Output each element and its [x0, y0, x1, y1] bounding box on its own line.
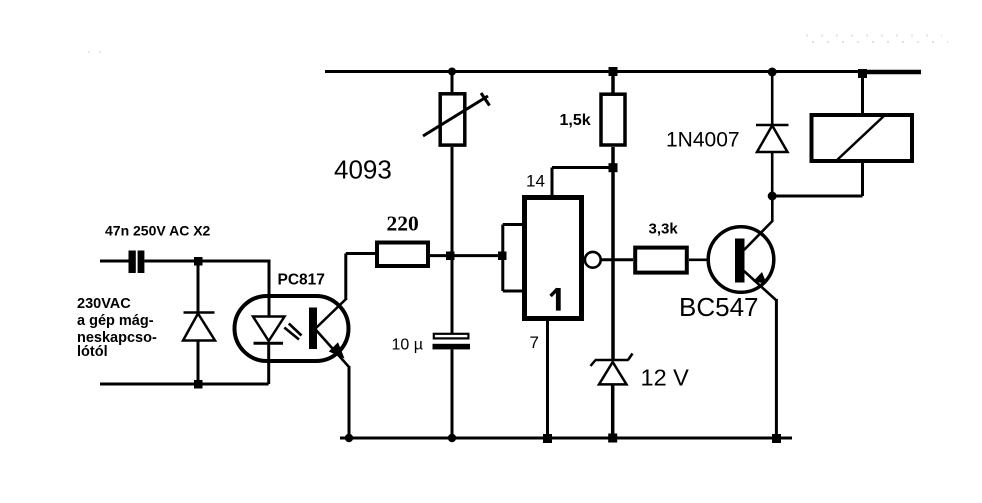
- phototransistor inside optocoupler: [309, 299, 349, 367]
- wire gate output to 3,3k: [601, 258, 633, 261]
- node junction pin14 supply: [609, 163, 618, 172]
- svg-text:3,3k: 3,3k: [649, 221, 679, 238]
- svg-text:lótól: lótól: [77, 344, 108, 360]
- node junction bottom rail / emitter BC547: [772, 434, 781, 443]
- node junction timing node: [446, 252, 455, 261]
- NAND gate U1 4093: [525, 198, 582, 319]
- diode D1: [183, 261, 215, 384]
- svg-text:14: 14: [526, 172, 545, 191]
- node junction top rail / relay: [858, 69, 867, 78]
- wire R3 to base: [689, 258, 735, 261]
- wire opto emitter to ground rail: [348, 366, 351, 438]
- wire emitter to ground rail: [775, 299, 778, 438]
- zener diode ZD1 12V: [591, 354, 633, 439]
- svg-text:PC817: PC817: [278, 272, 325, 289]
- svg-text:1N4007: 1N4007: [666, 129, 740, 152]
- svg-text:7: 7: [530, 333, 539, 352]
- relay K1: [772, 74, 912, 197]
- node junction D1 bottom: [194, 380, 203, 389]
- node junction top rail / 1,5k: [609, 67, 618, 76]
- wire input bracket: [503, 225, 523, 292]
- node junction D1 top: [194, 257, 203, 266]
- wire trimmer to timing node: [451, 147, 454, 333]
- resistor R2 1,5k: [601, 72, 625, 146]
- svg-text:47n 250V AC X2: 47n 250V AC X2: [105, 223, 211, 239]
- optocoupler U2 PC817 body: [235, 296, 349, 361]
- resistor R1 220: [377, 243, 428, 267]
- light coupling arrows: [284, 324, 301, 340]
- transistor Q1 BC547: [708, 221, 776, 301]
- label gate function 1: [551, 288, 561, 311]
- resistor R3 3,3k: [635, 248, 687, 273]
- svg-text:230VAC: 230VAC: [77, 296, 131, 312]
- svg-text:BC547: BC547: [679, 292, 759, 322]
- wire top supply rail: [325, 70, 921, 74]
- svg-text:10 µ: 10 µ: [392, 337, 423, 354]
- label 230VAC source text: [77, 296, 157, 360]
- trimmer resistor P1: [423, 72, 490, 146]
- wire bottom ground rail: [340, 437, 792, 440]
- node junction bottom rail / zener: [608, 434, 617, 443]
- wire R1 to gate inputs: [430, 254, 503, 257]
- diode D2 1N4007: [756, 72, 789, 197]
- node junction input bracket: [498, 252, 507, 261]
- wire collector to relay node: [771, 196, 774, 222]
- node junction bottom rail / opto emitter: [345, 434, 353, 442]
- wire pin 7 to ground: [546, 319, 549, 438]
- capacitor C1 47n: [100, 251, 269, 274]
- wire primary bottom: [100, 383, 269, 386]
- svg-text:4093: 4093: [334, 155, 392, 185]
- node junction bottom rail / C2: [448, 434, 456, 442]
- wire LED anode: [268, 260, 271, 318]
- svg-text:12 V: 12 V: [641, 365, 690, 391]
- svg-text:1,5k: 1,5k: [560, 112, 591, 129]
- LED inside optocoupler: [253, 317, 285, 385]
- node junction collector / relay / 1N4007: [768, 192, 777, 201]
- wire pin 14 to supply node: [552, 168, 613, 197]
- node junction top rail / trimmer: [448, 68, 456, 76]
- svg-text:a gép mág-: a gép mág-: [77, 313, 154, 329]
- node junction top rail / 1N4007: [768, 68, 777, 77]
- svg-text:220: 220: [387, 212, 419, 236]
- wire opto collector to 220: [346, 254, 375, 301]
- node junction bottom rail / pin7: [543, 434, 552, 443]
- output inverter bubble: [585, 252, 601, 268]
- capacitor C2 10u: [433, 334, 471, 438]
- wire R2 to zener: [611, 147, 615, 360]
